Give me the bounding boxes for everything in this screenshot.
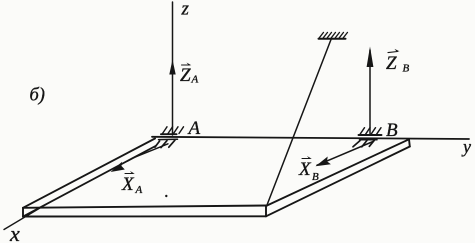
svg-text:y: y xyxy=(461,137,471,157)
svg-text:B: B xyxy=(312,171,319,183)
svg-text:B: B xyxy=(403,63,410,75)
svg-text:z: z xyxy=(181,0,190,20)
svg-text:X: X xyxy=(298,159,312,180)
svg-text:x: x xyxy=(9,221,20,243)
svg-text:Z: Z xyxy=(386,53,397,74)
svg-text:б): б) xyxy=(30,86,45,106)
svg-text:Z: Z xyxy=(180,65,191,86)
svg-text:A: A xyxy=(187,118,201,139)
svg-text:A: A xyxy=(135,184,143,196)
svg-text:X: X xyxy=(121,174,135,195)
svg-text:A: A xyxy=(191,74,199,86)
svg-text:B: B xyxy=(386,120,398,141)
